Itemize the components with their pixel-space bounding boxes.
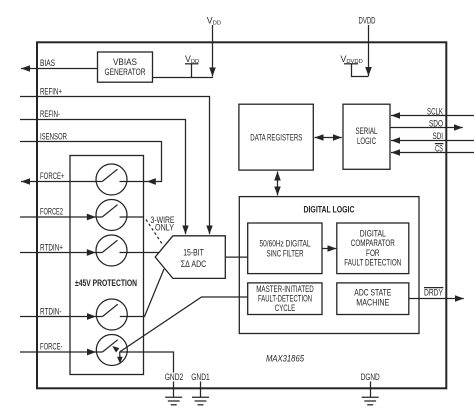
digital logic block	[239, 197, 419, 334]
svg-text:MACHINE: MACHINE	[356, 297, 389, 307]
svg-text:FAULT DETECTION: FAULT DETECTION	[344, 258, 401, 268]
svg-text:±45V PROTECTION: ±45V PROTECTION	[75, 278, 137, 288]
pin FORCE2	[20, 207, 102, 221]
wire DVDD supply drop	[368, 25, 370, 76]
net VDD internal terminal	[185, 54, 199, 78]
svg-text:GND1: GND1	[191, 372, 210, 382]
serial logic block	[343, 104, 390, 169]
svg-text:FORCE+: FORCE+	[40, 171, 65, 181]
svg-text:COMPARATOR: COMPARATOR	[351, 238, 395, 248]
dashed wire 3-wire connection	[146, 220, 163, 245]
svg-text:CYCLE: CYCLE	[275, 303, 296, 313]
pin FORCE-	[20, 342, 103, 356]
vbias generator U1	[98, 52, 153, 82]
wire FORCE- to GND2	[120, 352, 174, 397]
svg-text:15-BIT: 15-BIT	[183, 247, 204, 257]
ground DGND	[361, 372, 380, 405]
part label MAX31865	[266, 354, 304, 364]
sinc filter block	[248, 223, 322, 274]
pin FORCE+	[21, 171, 102, 182]
pin CS (active low)	[391, 143, 474, 153]
svg-text:RTDIN-: RTDIN-	[40, 306, 62, 316]
svg-text:REFIN-: REFIN-	[40, 109, 60, 119]
svg-text:VBIAS: VBIAS	[113, 57, 137, 67]
switch SW4 RTDIN-	[96, 299, 127, 330]
net VDVDD internal terminal	[341, 54, 369, 77]
pin ISENSOR	[20, 132, 162, 185]
svg-text:GND2: GND2	[165, 372, 184, 382]
svg-text:FORCE2: FORCE2	[40, 207, 63, 217]
svg-text:GENERATOR: GENERATOR	[105, 67, 146, 77]
fault comparator block	[337, 223, 409, 274]
svg-text:LOGIC: LOGIC	[357, 136, 376, 146]
ground GND2	[163, 372, 185, 405]
wire RTDIN+ to ADC	[120, 252, 160, 254]
wire ADC output to sinc filter	[225, 256, 247, 258]
data registers block	[239, 104, 313, 170]
master-initiated fault-detection block	[248, 283, 322, 315]
pin SCLK	[391, 106, 474, 116]
svg-text:ISENSOR: ISENSOR	[40, 132, 67, 142]
adc state machine block	[337, 283, 409, 315]
switch SW1 FORCE+	[96, 164, 127, 195]
pin DRDY (active low)	[409, 288, 464, 299]
switch SW5 FORCE-	[96, 335, 127, 366]
svg-text:50/60Hz DIGITAL: 50/60Hz DIGITAL	[260, 238, 311, 248]
svg-text:DIGITAL: DIGITAL	[360, 228, 386, 238]
svg-text:MASTER-INITIATED: MASTER-INITIATED	[256, 284, 314, 294]
wire FORCE2 switch to box edge	[120, 216, 144, 218]
svg-text:ΣΔ ADC: ΣΔ ADC	[181, 259, 207, 269]
pin REFIN-	[20, 109, 186, 234]
pin REFIN+	[20, 86, 210, 234]
wire master-initiated control to FORCE- switch	[112, 297, 248, 364]
pin DVDD label	[359, 15, 376, 25]
svg-text:DATA REGISTERS: DATA REGISTERS	[250, 132, 302, 142]
wire RTDIN- to ADC	[120, 269, 164, 317]
svg-text:RTDIN+: RTDIN+	[40, 242, 63, 252]
svg-text:SINC FILTER: SINC FILTER	[267, 249, 304, 259]
pin RTDIN+	[20, 242, 102, 256]
svg-text:BIAS: BIAS	[40, 58, 55, 68]
switch SW3 RTDIN+	[96, 235, 127, 266]
svg-text:DIGITAL LOGIC: DIGITAL LOGIC	[304, 204, 356, 214]
svg-text:SERIAL: SERIAL	[356, 126, 378, 136]
svg-text:DRDY: DRDY	[424, 288, 443, 298]
svg-text:DGND: DGND	[361, 372, 380, 382]
svg-text:FOR: FOR	[366, 248, 380, 258]
svg-text:REFIN+: REFIN+	[40, 86, 62, 96]
pin VDD label	[207, 15, 221, 26]
wire VDD supply drop	[212, 25, 214, 77]
IC outline MAX31865	[37, 42, 446, 388]
pin SDI	[391, 131, 474, 141]
wire sinc filter to comparator	[322, 248, 336, 250]
ground GND1	[191, 372, 210, 405]
svg-text:SDI: SDI	[433, 131, 444, 141]
svg-text:MAX31865: MAX31865	[266, 354, 304, 364]
wire VBIAS output to VDD node	[152, 77, 213, 79]
svg-text:DVDD: DVDD	[359, 15, 376, 25]
pin BIAS	[21, 58, 98, 69]
pin RTDIN-	[20, 306, 103, 320]
svg-text:SCLK: SCLK	[427, 106, 443, 116]
label 3-WIRE ONLY	[151, 215, 175, 232]
switch SW2 FORCE2	[96, 200, 127, 231]
wire data registers to digital logic (bidirectional)	[277, 172, 279, 196]
svg-text:FORCE-: FORCE-	[40, 342, 63, 352]
svg-text:ONLY: ONLY	[155, 222, 174, 232]
protection block ±45V PROTECTION	[70, 156, 144, 375]
wire data registers to serial logic (bidirectional)	[315, 137, 342, 139]
svg-text:ADC STATE: ADC STATE	[354, 287, 391, 297]
pin SDO	[390, 119, 463, 129]
ADC U2 15-BIT sigma-delta	[155, 236, 225, 279]
